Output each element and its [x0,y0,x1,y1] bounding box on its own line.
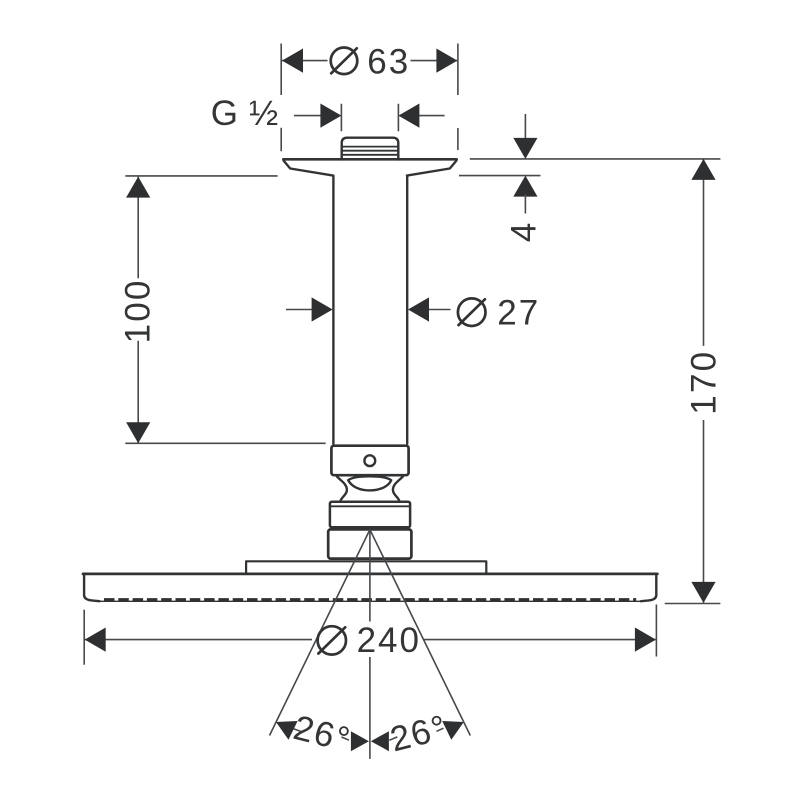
ext lines for O63 [281,44,458,152]
G1/2 left arrow (points right) [320,104,341,128]
center-right arrow [371,731,389,751]
170 bottom reference line [665,603,721,605]
O27 right line [429,309,451,311]
svg-text:27: 27 [497,294,540,333]
170 up arrow [691,159,715,180]
4-dim upper stem [524,114,526,140]
svg-text:240: 240 [357,621,421,660]
centerline [369,530,371,759]
svg-text:63: 63 [367,42,410,81]
ceiling flange top edge [283,158,456,161]
ext lines for G1/2 [341,104,398,132]
100 dimension line [137,177,139,443]
O240 right ext line [655,605,657,657]
shower plate outline [83,573,657,576]
ball joint sphere lens [348,476,391,490]
raised platform on plate [246,561,486,573]
left 26 deg spray line [270,530,370,736]
flange bottom reference line [459,175,541,177]
left 26deg arrow on spray line [276,721,298,740]
spray nozzles dashed band [104,598,636,601]
flange top reference line (shared with 170) [470,158,721,160]
svg-text:G ½: G ½ [211,94,279,133]
G1/2 right arrow (points left) [398,104,419,128]
4-dim lower stem [524,194,526,214]
O240 left ext line [83,610,85,665]
4-dim up arrow [513,176,537,197]
O63 dimension line [282,60,457,62]
O63 label [331,48,358,75]
O27 right arrow (points left at pipe) [408,297,429,321]
collar nut [330,502,410,528]
100 bottom reference line [125,442,325,444]
ceiling flange underside [284,161,457,176]
O27 left arrow (points right at pipe) [312,297,333,321]
O240 dimension line [85,639,656,641]
100 top reference line [125,175,277,177]
170 down arrow [691,582,715,603]
G1/2 dimension lines [294,115,445,117]
svg-text:100: 100 [118,278,157,343]
leader stubs [294,728,444,740]
right 26 deg spray line [370,530,470,736]
100 up arrow [126,177,150,198]
connector box with screw hole [331,446,408,476]
ball joint left profile [337,476,347,501]
nipple thread lines [342,147,398,155]
spray face bottom line [100,600,641,602]
svg-text:4: 4 [505,223,544,242]
170 dimension line [703,159,705,603]
spray head hub [328,529,411,558]
O27 left line [286,309,312,311]
O63 right arrow [436,49,457,73]
O240 label [318,626,346,654]
threaded nipple G1/2 connector [342,138,399,160]
collar nut shoulder line [330,505,410,507]
svg-text:170: 170 [684,350,723,415]
O240 left arrow [85,628,106,652]
pipe (Ø27 drop tube) [333,176,407,444]
O63 left arrow [282,49,303,73]
4-dim down arrow [513,138,537,159]
screw hole [364,455,375,466]
O240 right arrow [635,628,656,652]
right 26deg arrow on spray line [442,721,464,740]
O27 label [458,298,486,326]
center-left arrow [351,731,369,751]
100 down arrow [126,422,150,443]
ball joint right profile [393,476,403,501]
